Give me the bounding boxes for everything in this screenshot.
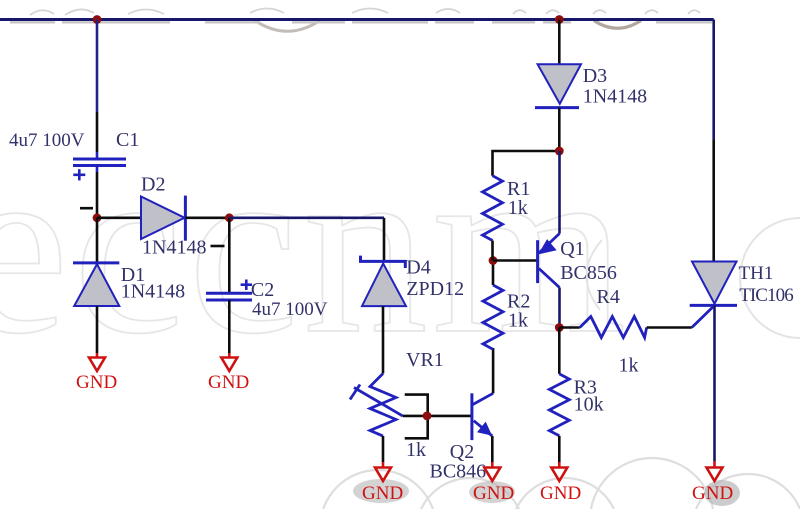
wire C2 bottom to GND2 xyxy=(228,300,231,353)
minus mark near node A xyxy=(80,207,93,210)
svg-text:1k: 1k xyxy=(508,310,528,332)
svg-text:1N4148: 1N4148 xyxy=(142,237,206,259)
wire node A down to D1 xyxy=(96,218,99,262)
wire right vertical (bus to TH1 anode) xyxy=(712,20,715,141)
diode D1 xyxy=(73,263,119,306)
node bus-D3 xyxy=(555,15,564,24)
svg-text:C2: C2 xyxy=(251,279,274,301)
wire C1 bottom lead xyxy=(96,172,99,218)
svg-text:GND: GND xyxy=(692,483,733,504)
wire R1 top from node E xyxy=(493,151,560,176)
svg-text:GND: GND xyxy=(76,372,117,393)
wire R3 top lead xyxy=(558,328,561,374)
ground GND4 xyxy=(473,462,514,504)
transistor Q2 xyxy=(472,393,493,440)
svg-text:GND: GND xyxy=(540,483,581,504)
svg-text:D2: D2 xyxy=(141,174,165,196)
transistor Q1 xyxy=(538,151,560,328)
node E (D3/R1/Q1) xyxy=(555,147,564,156)
svg-text:TIC106: TIC106 xyxy=(739,285,794,306)
svg-text:GND: GND xyxy=(362,483,403,504)
svg-text:BC846: BC846 xyxy=(430,461,487,483)
node C (wiper) xyxy=(423,412,432,421)
potentiometer VR1 xyxy=(350,374,403,437)
svg-text:4u7 100V: 4u7 100V xyxy=(252,299,328,320)
wire TH1 cathode to GND6 xyxy=(713,305,716,461)
wire node F to R4 xyxy=(559,326,580,329)
wire C1 top lead xyxy=(96,20,99,113)
wire D3 top lead xyxy=(558,20,561,65)
resistor R1 xyxy=(483,176,503,241)
svg-text:VR1: VR1 xyxy=(406,349,444,371)
wire R2 top lead xyxy=(492,261,495,286)
wire top bus xyxy=(0,18,714,21)
ground GND3 xyxy=(362,462,403,504)
svg-text:Q1: Q1 xyxy=(560,238,584,260)
wire D4 to VR1 xyxy=(382,306,385,373)
svg-text:TH1: TH1 xyxy=(739,263,774,284)
wire VR1 bottom to GND3 xyxy=(382,436,385,462)
svg-text:D3: D3 xyxy=(583,65,607,87)
watermark row1 arcs (decorative) xyxy=(10,9,712,32)
svg-text:R4: R4 xyxy=(597,286,620,308)
diode D3 xyxy=(535,64,581,107)
wire D3 cathode to node E xyxy=(558,108,561,151)
wire TH1 gate diagonal xyxy=(692,305,715,327)
resistor R4 xyxy=(580,317,647,338)
wiper bracket wires xyxy=(405,395,428,439)
wire D2 cathode to node B xyxy=(185,217,229,220)
svg-text:1k: 1k xyxy=(406,439,426,461)
zener diode D4 xyxy=(361,256,407,307)
wire R3 bottom to GND5 xyxy=(558,436,561,462)
wire wiper to Q2 base xyxy=(403,415,472,418)
svg-text:GND: GND xyxy=(208,372,249,393)
node A (C1/D2/D1) xyxy=(93,213,102,222)
ground GND5 xyxy=(540,462,581,504)
svg-text:10k: 10k xyxy=(574,394,604,416)
ground GND6 xyxy=(692,461,733,504)
wire node D to Q1 base xyxy=(493,259,538,262)
capacitor C2 xyxy=(206,280,252,301)
svg-text:4u7 100V: 4u7 100V xyxy=(9,130,85,151)
wire node A to D2 anode xyxy=(97,217,141,220)
node B (D2/C2/wire) xyxy=(225,213,234,222)
capacitor C1 xyxy=(73,159,126,180)
wire Q2 emitter to GND4 xyxy=(491,436,494,462)
resistor R2 xyxy=(483,285,503,349)
node bus-C1 xyxy=(93,15,102,24)
diode D2 xyxy=(141,196,185,241)
watermark row2 big letters (decorative) xyxy=(0,109,800,386)
svg-text:C1: C1 xyxy=(116,129,139,151)
svg-text:1k: 1k xyxy=(619,355,639,377)
ground GND2 xyxy=(208,353,249,393)
thyristor TH1 xyxy=(690,262,737,306)
wire Q2 collector up to R2 xyxy=(492,348,495,393)
svg-text:1N4148: 1N4148 xyxy=(121,281,185,303)
ground GND1 xyxy=(76,353,117,393)
wire D1 anode to GND1 xyxy=(96,306,99,353)
svg-text:GND: GND xyxy=(473,483,514,504)
wire R4 to TH1 gate xyxy=(647,326,692,329)
wire node B to D4 branch xyxy=(229,217,384,220)
wire node B down to C2 xyxy=(228,218,231,292)
svg-text:D4: D4 xyxy=(406,256,430,278)
svg-text:1N4148: 1N4148 xyxy=(583,86,647,108)
watermark row3 circles (decorative) xyxy=(320,458,800,509)
svg-text:BC856: BC856 xyxy=(560,262,617,284)
node D (R1/R2/Q1 base) xyxy=(489,256,498,265)
svg-text:ZPD12: ZPD12 xyxy=(406,278,464,300)
svg-text:1k: 1k xyxy=(508,197,528,219)
wire R1 bottom lead xyxy=(491,241,494,261)
resistor R3 xyxy=(549,374,569,436)
node F (Q1 coll/R3/R4) xyxy=(555,323,564,332)
minus mark right of 1N4148 xyxy=(211,245,225,248)
